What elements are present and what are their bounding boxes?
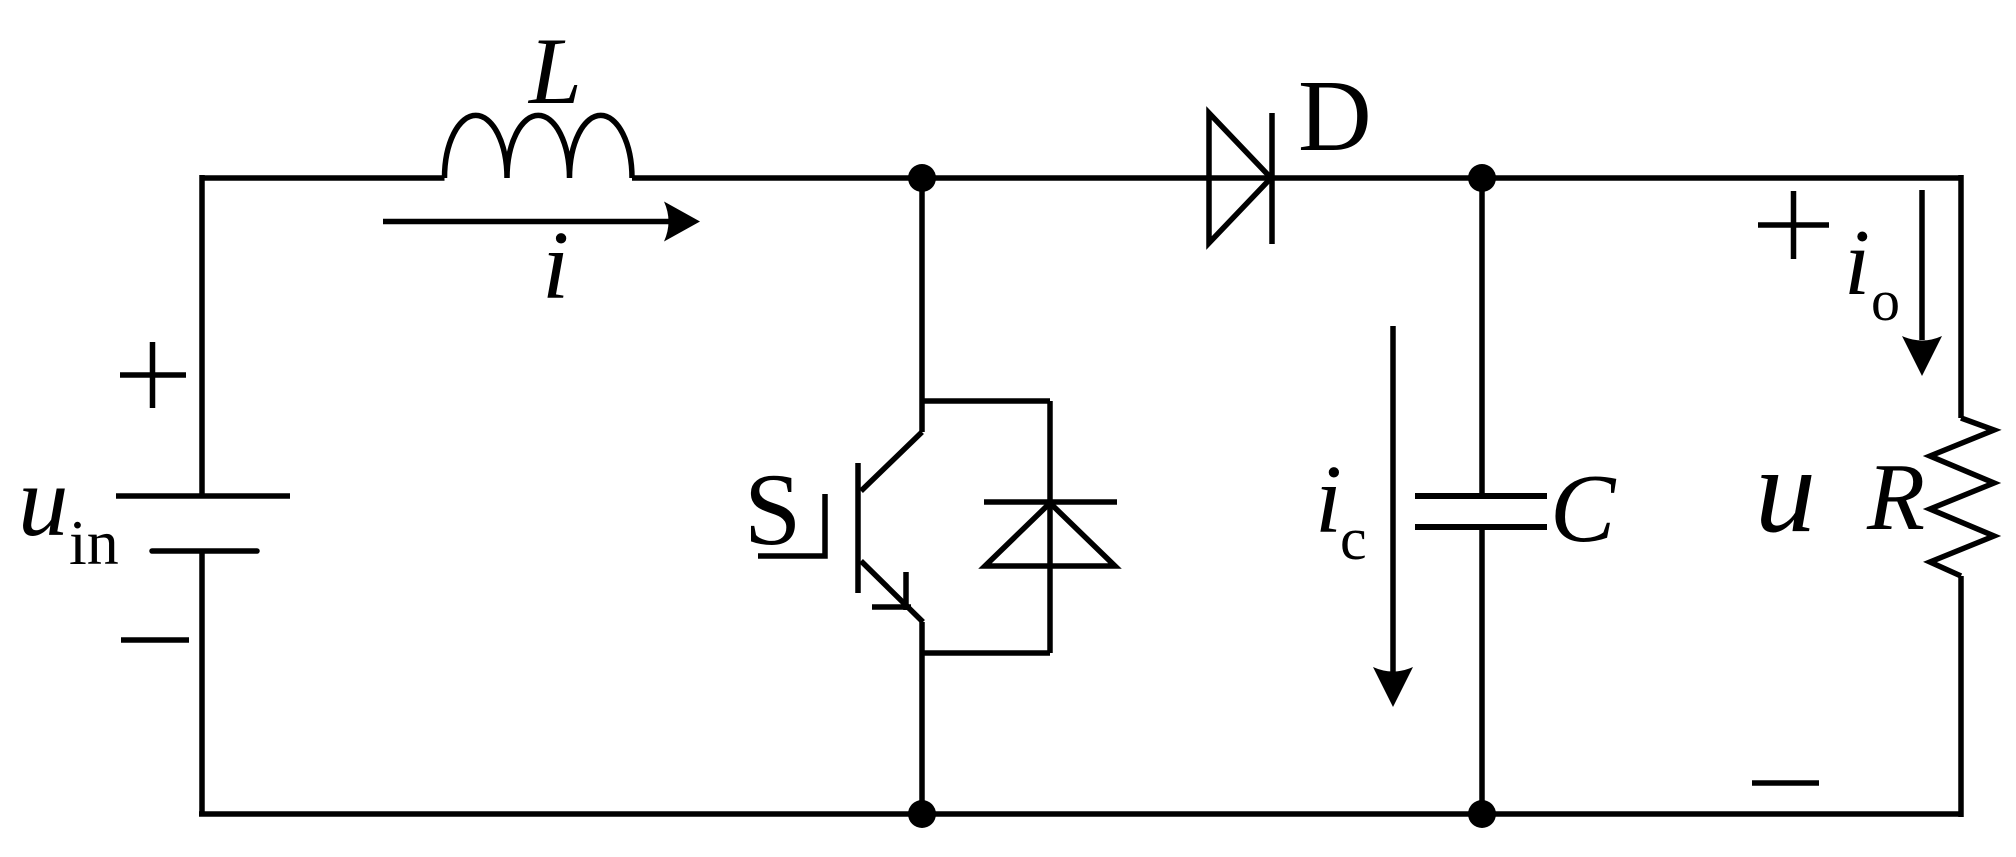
capacitor C bottom plate xyxy=(1415,524,1547,530)
svg-text:c: c xyxy=(1340,506,1367,572)
svg-text:i: i xyxy=(1844,211,1870,315)
wire capacitor upper xyxy=(1479,178,1485,496)
node junction dot top capacitor xyxy=(1468,164,1496,192)
transistor S collector diagonal xyxy=(861,432,922,491)
current arrow io line xyxy=(1919,190,1925,340)
wire emitter vertical xyxy=(919,622,925,814)
svg-text:R: R xyxy=(1866,444,1925,550)
minus sign left xyxy=(121,637,189,643)
transistor S gate lead xyxy=(758,494,825,556)
node junction dot bottom capacitor xyxy=(1468,800,1496,828)
node junction dot top switch xyxy=(908,164,936,192)
wire module right xyxy=(1047,401,1053,653)
wire top rail middle xyxy=(632,175,1961,181)
transistor S emitter arrow barb vertical xyxy=(903,572,909,610)
wire left vertical upper xyxy=(199,175,205,496)
arrowhead of current ic xyxy=(1373,667,1413,707)
battery u_in long plate xyxy=(116,493,290,499)
svg-text:i: i xyxy=(1315,446,1342,553)
plus sign left xyxy=(120,342,186,408)
resistor R zigzag xyxy=(1930,418,1994,576)
minus sign right xyxy=(1752,780,1819,786)
svg-text:S: S xyxy=(744,453,801,567)
inductor L xyxy=(445,115,633,178)
transistor S body bar xyxy=(855,463,861,593)
capacitor C top plate xyxy=(1415,493,1547,499)
wire module top xyxy=(922,398,1050,404)
svg-text:D: D xyxy=(1298,60,1372,173)
wire module bottom xyxy=(922,650,1050,656)
svg-text:u: u xyxy=(1755,423,1816,558)
wire capacitor lower xyxy=(1479,527,1485,814)
svg-text:C: C xyxy=(1550,455,1617,563)
svg-text:u: u xyxy=(18,445,69,557)
svg-text:i: i xyxy=(542,212,569,320)
diode of switch cathode bar xyxy=(984,499,1117,505)
svg-text:o: o xyxy=(1871,268,1900,333)
diode D cathode bar xyxy=(1269,113,1275,244)
battery u_in short plate xyxy=(152,548,257,554)
diode D triangle xyxy=(1209,113,1271,243)
svg-text:in: in xyxy=(69,507,119,578)
wire bottom rail xyxy=(199,811,1961,817)
wire right vertical lower xyxy=(1958,576,1964,817)
svg-text:L: L xyxy=(527,18,582,124)
diode of switch triangle xyxy=(985,503,1115,566)
wire switch branch collector xyxy=(919,178,925,432)
wire top-left horizontal xyxy=(202,175,445,181)
arrowhead of current io xyxy=(1902,336,1942,376)
plus sign right xyxy=(1758,191,1829,259)
wire left vertical lower xyxy=(199,551,205,814)
transistor S emitter diagonal xyxy=(861,561,923,622)
arrowhead of current i xyxy=(664,202,700,242)
node junction dot bottom switch xyxy=(908,800,936,828)
current arrow ic line xyxy=(1390,326,1396,672)
transistor S emitter arrow barb horizontal xyxy=(872,604,911,610)
current arrow i line xyxy=(383,219,672,225)
wire right vertical upper xyxy=(1958,175,1964,418)
